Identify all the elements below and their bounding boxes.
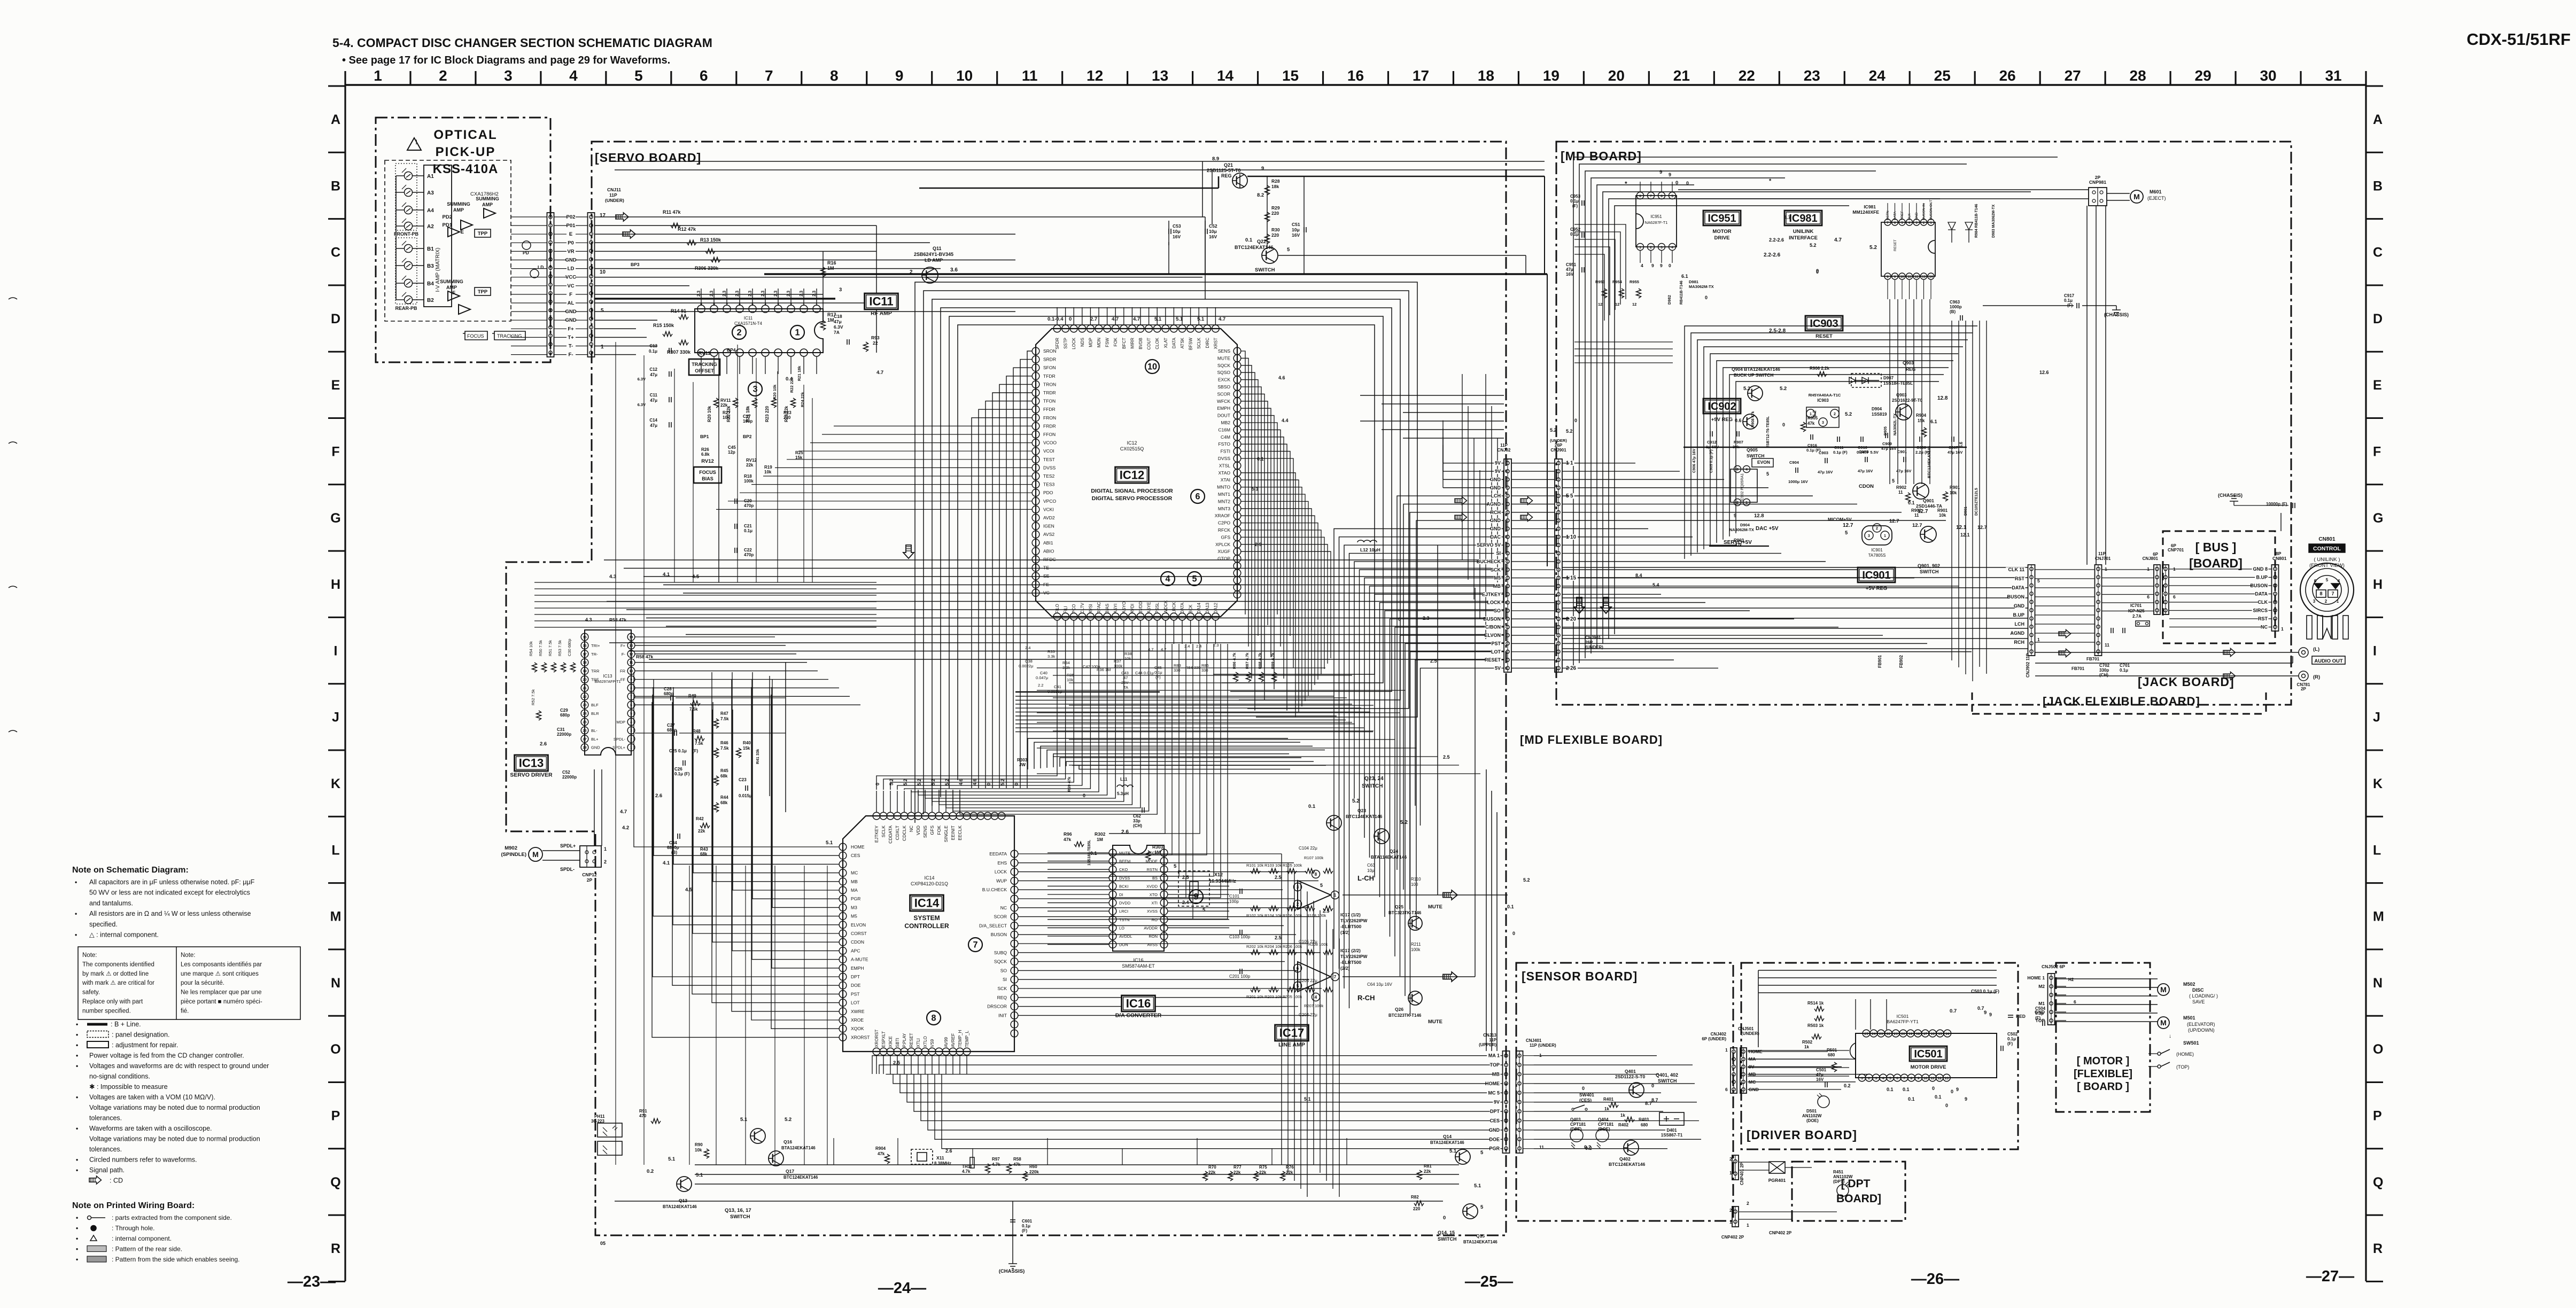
svg-text:•: •: [75, 931, 77, 939]
svg-text:4.3: 4.3: [609, 574, 616, 580]
svg-text:FFON: FFON: [1043, 432, 1056, 437]
svg-text:10: 10: [1923, 1077, 1928, 1080]
svg-text:JW: JW: [1019, 762, 1026, 767]
svg-text:[MD FLEXIBLE BOARD]: [MD FLEXIBLE BOARD]: [1520, 733, 1663, 746]
svg-text:D501: D501: [1806, 1109, 1817, 1114]
svg-text:FILO: FILO: [1055, 604, 1060, 613]
svg-text:0.1: 0.1: [1887, 1087, 1894, 1092]
svg-text:1: 1: [2105, 566, 2107, 572]
svg-text:5: 5: [1570, 493, 1573, 499]
svg-text:[ BOARD ]: [ BOARD ]: [2077, 1081, 2129, 1093]
svg-text:(L): (L): [2313, 647, 2319, 652]
svg-text:13: 13: [1945, 1077, 1949, 1080]
svg-text:7.5k: 7.5k: [695, 741, 703, 746]
svg-text:9: 9: [1965, 1096, 1967, 1102]
svg-text:220k: 220k: [1029, 1170, 1039, 1174]
svg-text:10μ: 10μ: [1173, 229, 1181, 234]
svg-text:C23: C23: [739, 777, 747, 782]
svg-text:6.3V: 6.3V: [834, 324, 843, 330]
svg-text:TPP: TPP: [478, 231, 488, 237]
svg-text:L12 10μH: L12 10μH: [1360, 547, 1380, 552]
svg-text:RO: RO: [1152, 917, 1158, 922]
svg-text:R104 10k: R104 10k: [1264, 913, 1282, 918]
svg-text:2.7: 2.7: [1090, 316, 1097, 322]
svg-text:M5: M5: [1494, 575, 1501, 581]
svg-text:FB902: FB902: [1899, 655, 1904, 668]
svg-text:1000p: 1000p: [1950, 305, 1962, 309]
svg-text:A3: A3: [427, 190, 434, 196]
svg-text:1: 1: [1729, 1219, 1732, 1225]
svg-text:•: •: [76, 1052, 78, 1060]
svg-text:Circled numbers refer to wavef: Circled numbers refer to waveforms.: [89, 1156, 197, 1164]
svg-text:12.7: 12.7: [1977, 525, 1987, 530]
svg-text:5-4. COMPACT DISC CHANGER SEC: 5-4. COMPACT DISC CHANGER SECTION SCHEMA…: [332, 36, 712, 50]
svg-text:SUMMING: SUMMING: [440, 279, 463, 284]
svg-text:D983 MA3062M-TX: D983 MA3062M-TX: [1992, 204, 1996, 238]
svg-text:BVDD: BVDD: [1138, 602, 1143, 613]
svg-text:VDD: VDD: [915, 826, 921, 835]
svg-text:NC: NC: [909, 826, 914, 832]
svg-text:47μ: 47μ: [834, 319, 842, 324]
svg-text:47μ 16V: 47μ 16V: [1858, 469, 1873, 473]
svg-text:[JACK BOARD]: [JACK BOARD]: [2138, 675, 2234, 689]
svg-text:R902: R902: [1896, 485, 1907, 490]
svg-text:9: 9: [1651, 263, 1654, 268]
svg-text:D: D: [331, 312, 340, 326]
svg-text:220: 220: [783, 415, 791, 420]
svg-text:TEMP_H: TEMP_H: [958, 1030, 963, 1047]
svg-text:DOE: DOE: [851, 983, 861, 988]
svg-text:C: C: [331, 245, 340, 260]
svg-text:RON: RON: [1149, 934, 1158, 939]
svg-text:5.2: 5.2: [944, 778, 950, 785]
svg-text:1M: 1M: [827, 266, 834, 271]
svg-text:25: 25: [1864, 1032, 1868, 1036]
svg-text:(UNDER): (UNDER): [1550, 438, 1567, 443]
svg-text:*: *: [1625, 180, 1627, 188]
svg-text:REAR-PB: REAR-PB: [395, 306, 417, 311]
svg-text:GND: GND: [1915, 212, 1919, 220]
svg-text:23: 23: [583, 704, 587, 707]
svg-text:IC13: IC13: [603, 674, 612, 679]
svg-text:0.1μ: 0.1μ: [649, 349, 657, 354]
svg-text:C204 22μ: C204 22μ: [1299, 1013, 1317, 1017]
svg-text:C20: C20: [744, 499, 752, 503]
svg-text:•: •: [75, 910, 77, 917]
svg-text:11: 11: [630, 661, 633, 665]
svg-text:OPTICAL: OPTICAL: [433, 128, 497, 142]
svg-text:CONTROL: CONTROL: [2313, 546, 2341, 552]
svg-text:C/BON: C/BON: [1485, 625, 1501, 630]
svg-text:2: 2: [1747, 1201, 1749, 1206]
svg-text:LO: LO: [1119, 925, 1124, 930]
svg-text:22k: 22k: [698, 829, 705, 834]
svg-text:9: 9: [630, 678, 632, 682]
svg-text:G: G: [330, 511, 340, 526]
svg-text:H: H: [2373, 577, 2383, 592]
svg-text:AVDDR: AVDDR: [1144, 925, 1158, 930]
svg-text:0: 0: [1705, 295, 1708, 300]
svg-text:IC11: IC11: [869, 295, 893, 308]
svg-text:INTERFACE: INTERFACE: [1789, 235, 1818, 241]
svg-text:MOTOR DRIVE: MOTOR DRIVE: [1911, 1064, 1946, 1070]
svg-text:5: 5: [1202, 907, 1206, 913]
svg-text:0: 0: [1951, 1089, 1953, 1094]
svg-text:R502: R502: [1802, 1040, 1813, 1045]
svg-text:0: 0: [1945, 1103, 1948, 1108]
svg-text:SWITCH: SWITCH: [1747, 453, 1765, 458]
svg-text:10μ: 10μ: [1292, 227, 1300, 232]
svg-text:2: 2: [439, 67, 447, 84]
svg-text:2.5: 2.5: [1323, 908, 1330, 914]
svg-text:C12: C12: [649, 367, 657, 372]
svg-text:C906 47μ 16V: C906 47μ 16V: [1693, 449, 1696, 473]
svg-text:5.1: 5.1: [1304, 1096, 1311, 1102]
svg-text:9: 9: [1918, 1077, 1920, 1080]
svg-text:2SD1446-TA: 2SD1446-TA: [1916, 503, 1942, 509]
svg-text:•: •: [76, 1156, 78, 1164]
svg-text:RFDC: RFDC: [1043, 557, 1056, 562]
svg-text:5.2: 5.2: [1400, 820, 1408, 826]
svg-text:9V: 9V: [1495, 461, 1501, 466]
svg-text:MNT2: MNT2: [1218, 499, 1230, 504]
svg-text:28: 28: [2130, 67, 2146, 84]
svg-text:E: E: [569, 231, 572, 237]
svg-text:PICK-UP: PICK-UP: [436, 145, 496, 159]
svg-text:R451: R451: [1833, 1170, 1844, 1174]
svg-text:2.5: 2.5: [1182, 875, 1189, 880]
svg-text:XROE: XROE: [851, 1017, 864, 1023]
svg-text:BTA124EKAT146: BTA124EKAT146: [781, 1146, 816, 1150]
svg-text:13: 13: [1152, 67, 1168, 84]
svg-text:C64 10μ 16V: C64 10μ 16V: [1367, 982, 1393, 987]
svg-text:10k: 10k: [723, 415, 730, 420]
svg-text:11: 11: [1539, 1144, 1544, 1150]
svg-text:C205 22μ: C205 22μ: [1299, 978, 1317, 983]
svg-text:9: 9: [1193, 892, 1198, 901]
svg-text:BUSON OUT: BUSON OUT: [1929, 199, 1933, 220]
svg-text:R203 10k: R203 10k: [1264, 994, 1282, 999]
svg-text:E: E: [461, 229, 464, 235]
svg-text:MNTO: MNTO: [1217, 485, 1230, 490]
svg-text:R23: R23: [783, 410, 792, 415]
svg-text:XRORST: XRORST: [874, 1030, 879, 1047]
svg-text:R54 10k: R54 10k: [529, 641, 533, 656]
svg-text:2: 2: [630, 737, 632, 741]
svg-text:ASYE: ASYE: [1147, 602, 1152, 613]
svg-text:6: 6: [2147, 594, 2150, 599]
svg-text:ELVON: ELVON: [851, 922, 866, 928]
svg-text:TES3: TES3: [1043, 482, 1055, 487]
svg-text:C: C: [2373, 245, 2383, 260]
svg-text:BUCHECK: BUCHECK: [1477, 559, 1501, 564]
svg-text:2.6: 2.6: [1121, 829, 1129, 835]
svg-text:6P: 6P: [2171, 543, 2176, 548]
svg-text:IC981: IC981: [1864, 204, 1876, 209]
svg-text:• See page 17 for IC Block Dia: • See page 17 for IC Block Diagrams and …: [342, 54, 670, 66]
svg-text:1: 1: [1810, 412, 1812, 416]
svg-text:IC902: IC902: [1708, 401, 1736, 412]
svg-text:EECLK: EECLK: [957, 826, 963, 840]
svg-text:IC12: IC12: [1127, 440, 1137, 446]
svg-text:EJTKEY: EJTKEY: [1482, 591, 1501, 597]
svg-text:9: 9: [1669, 172, 1671, 177]
svg-text:2: 2: [1729, 1156, 1732, 1162]
svg-text:(CH): (CH): [1133, 823, 1142, 828]
svg-text:1: 1: [1570, 461, 1573, 466]
svg-text:10k: 10k: [1124, 656, 1131, 661]
svg-text:12: 12: [1087, 67, 1103, 84]
svg-text:D/A CONVERTER: D/A CONVERTER: [1115, 1013, 1162, 1019]
svg-text:GND: GND: [2035, 1009, 2045, 1015]
svg-text:CNJ401: CNJ401: [1526, 1038, 1542, 1043]
svg-text:R21 18k: R21 18k: [797, 365, 802, 381]
svg-text:11P: 11P: [1489, 1038, 1496, 1042]
svg-text:DVDD: DVDD: [1119, 901, 1131, 906]
svg-text:M5: M5: [851, 914, 857, 919]
svg-text:A1: A1: [427, 174, 434, 180]
svg-text:BFCT: BFCT: [1122, 338, 1127, 349]
svg-text:OFFSET: OFFSET: [695, 368, 714, 373]
svg-text:6: 6: [2173, 594, 2176, 599]
svg-text:DI: DI: [1119, 892, 1123, 897]
svg-text:FOCUS: FOCUS: [467, 333, 484, 339]
svg-text:2: 2: [1834, 412, 1836, 416]
svg-text:2.5: 2.5: [1275, 935, 1282, 940]
svg-text:12.7: 12.7: [1889, 518, 1899, 524]
svg-text:0.1: 0.1: [1903, 1087, 1910, 1092]
svg-text:9V: 9V: [1494, 1100, 1500, 1105]
svg-text:6: 6: [1297, 966, 1299, 971]
svg-text:N: N: [2373, 976, 2383, 991]
svg-text:1SS184-TE85L: 1SS184-TE85L: [1088, 839, 1091, 866]
svg-text:26: 26: [1570, 665, 1577, 671]
svg-text:8: 8: [830, 67, 839, 84]
svg-text:TR-: TR-: [591, 652, 598, 657]
svg-text:R44: R44: [720, 795, 728, 800]
svg-text:XTSL: XTSL: [1219, 463, 1231, 468]
svg-text:47μ: 47μ: [650, 398, 657, 403]
svg-text:✱ : Impossible to measure: ✱ : Impossible to measure: [89, 1083, 168, 1091]
svg-text:6: 6: [630, 704, 632, 707]
svg-text:5.1: 5.1: [668, 1156, 676, 1162]
svg-text:I: I: [334, 643, 338, 658]
svg-text:B.UP: B.UP: [2013, 612, 2024, 618]
svg-text:220: 220: [1413, 1206, 1421, 1211]
svg-text:R107 100k: R107 100k: [1304, 855, 1324, 860]
svg-text:100: 100: [1411, 882, 1418, 887]
svg-text:5: 5: [630, 712, 632, 716]
svg-text:B4: B4: [427, 281, 434, 287]
svg-text:by mark ⚠ or dotted line: by mark ⚠ or dotted line: [82, 971, 149, 977]
svg-text:GND: GND: [1490, 518, 1501, 523]
svg-text:4.7: 4.7: [1219, 316, 1225, 322]
svg-text:number specified.: number specified.: [82, 1008, 131, 1014]
svg-text:12: 12: [1598, 302, 1602, 307]
svg-text:FOK: FOK: [936, 826, 942, 835]
svg-text:C52: C52: [562, 770, 570, 775]
svg-text:R90: R90: [695, 1142, 703, 1147]
svg-text:5.4: 5.4: [1652, 582, 1659, 588]
svg-text:Note:: Note:: [82, 952, 97, 959]
svg-text:100p: 100p: [743, 419, 752, 424]
svg-text:BTA114EKAT146: BTA114EKAT146: [1371, 854, 1407, 860]
svg-text:CNP402 2P: CNP402 2P: [1721, 1235, 1744, 1240]
svg-text:EMPH: EMPH: [851, 966, 864, 971]
svg-text:CDON: CDON: [851, 939, 864, 945]
svg-text:VCKI: VCKI: [1043, 507, 1054, 512]
svg-text:0.1μ: 0.1μ: [1154, 670, 1162, 675]
svg-text:[MD BOARD]: [MD BOARD]: [1561, 149, 1642, 163]
svg-text:CX02515Q: CX02515Q: [1120, 446, 1144, 451]
svg-text:16: 16: [1931, 1032, 1935, 1036]
svg-text:Q16: Q16: [783, 1139, 792, 1144]
svg-text:RESET: RESET: [909, 1033, 914, 1047]
svg-text:D982: D982: [1667, 295, 1672, 305]
svg-text:2: 2: [1729, 1208, 1732, 1213]
svg-text:5.1: 5.1: [1154, 316, 1162, 322]
svg-text:(UNDER): (UNDER): [605, 198, 624, 203]
svg-text:VCOO: VCOO: [1043, 440, 1057, 446]
svg-text:[FLEXIBLE]: [FLEXIBLE]: [2074, 1068, 2132, 1080]
svg-text:R27: R27: [723, 410, 731, 415]
svg-text:RESET: RESET: [1815, 333, 1833, 339]
svg-text:2.6: 2.6: [945, 1148, 952, 1154]
svg-text:RST: RST: [2258, 616, 2268, 621]
svg-text:SERVO DRIVER: SERVO DRIVER: [510, 772, 553, 778]
svg-text:NA6287F-T1: NA6287F-T1: [1645, 220, 1668, 225]
svg-text:BUCK UP SWITCH: BUCK UP SWITCH: [1734, 372, 1773, 378]
svg-text:22000p: 22000p: [557, 732, 571, 737]
svg-text:2.4: 2.4: [1196, 644, 1201, 649]
svg-text:EHS: EHS: [998, 860, 1007, 866]
svg-text:0.1μ: 0.1μ: [1570, 232, 1579, 237]
svg-text:3: 3: [752, 384, 757, 394]
svg-text:12.7: 12.7: [1918, 509, 1928, 515]
svg-text:SCOR: SCOR: [994, 914, 1007, 920]
svg-text:R42: R42: [696, 816, 704, 821]
svg-text:: Pattern of the rear side.: : Pattern of the rear side.: [112, 1245, 182, 1253]
svg-text:0.1μ: 0.1μ: [1570, 199, 1579, 204]
svg-text:2: 2: [1650, 246, 1652, 250]
svg-text:4: 4: [630, 721, 632, 725]
svg-text:M2: M2: [2038, 984, 2045, 989]
svg-text:Note on Schematic Diagram:: Note on Schematic Diagram:: [72, 866, 189, 875]
svg-text:C28: C28: [664, 687, 672, 691]
svg-text:SWITCH: SWITCH: [1255, 267, 1275, 273]
svg-text:0.1μ: 0.1μ: [2064, 298, 2073, 303]
svg-text:0: 0: [1686, 181, 1689, 186]
svg-text:LOCK: LOCK: [1487, 600, 1501, 605]
svg-text:10: 10: [1570, 534, 1577, 540]
svg-text:CLK 11: CLK 11: [2008, 567, 2024, 572]
svg-text:R30: R30: [1271, 227, 1280, 232]
svg-text:TRR: TRR: [591, 669, 600, 674]
svg-text:MNT1: MNT1: [1218, 492, 1230, 497]
svg-text:2.3: 2.3: [722, 290, 727, 297]
svg-text:5: 5: [601, 308, 604, 314]
svg-text:•: •: [76, 1125, 78, 1132]
svg-text:R69 47k: R69 47k: [1067, 776, 1072, 792]
svg-text:RV11: RV11: [698, 351, 711, 356]
svg-text:R18: R18: [744, 474, 752, 479]
svg-text:T+: T+: [568, 334, 574, 340]
svg-text:2.5: 2.5: [1443, 754, 1450, 760]
svg-text:-ELRT500: -ELRT500: [1340, 924, 1361, 929]
svg-text:4: 4: [569, 67, 578, 84]
svg-text:P0: P0: [568, 240, 574, 246]
svg-text:R503 1k: R503 1k: [1807, 1023, 1824, 1028]
svg-text:BL+: BL+: [591, 737, 599, 742]
svg-text:XTI: XTI: [1151, 901, 1158, 906]
svg-text:VC: VC: [567, 283, 574, 289]
svg-text:: adjustment for repair.: : adjustment for repair.: [112, 1041, 178, 1049]
svg-text:16.9344MHz: 16.9344MHz: [1209, 878, 1237, 884]
svg-text:—23—: —23—: [288, 1273, 336, 1290]
svg-text:24: 24: [1872, 1032, 1876, 1036]
svg-text:BLR: BLR: [591, 711, 599, 716]
svg-text:2: 2: [1297, 902, 1299, 907]
svg-text:C43: C43: [1121, 671, 1129, 675]
svg-text:R25: R25: [795, 450, 803, 455]
svg-text:4.6: 4.6: [972, 778, 977, 785]
svg-text:O: O: [330, 1042, 340, 1057]
svg-text:(R): (R): [2313, 674, 2320, 680]
svg-text:P: P: [331, 1109, 340, 1124]
svg-text:CNJ501: CNJ501: [1738, 1026, 1754, 1031]
svg-text:ATSK: ATSK: [1180, 337, 1185, 348]
svg-text:2: 2: [604, 859, 607, 865]
svg-text:22k: 22k: [1424, 1169, 1431, 1174]
svg-text:Q15: Q15: [1476, 1233, 1485, 1239]
svg-text:6: 6: [700, 67, 708, 84]
svg-text:SWITCH: SWITCH: [730, 1214, 750, 1220]
svg-text:(DOE): (DOE): [1806, 1118, 1819, 1123]
svg-text:NA3062M-TX: NA3062M-TX: [1729, 527, 1754, 532]
svg-text:R206 100k: R206 100k: [1283, 944, 1302, 949]
svg-text:16: 16: [583, 644, 587, 648]
svg-text:1: 1: [1747, 1223, 1749, 1228]
svg-text:[ DPT: [ DPT: [1841, 1178, 1871, 1190]
svg-text:GND 8: GND 8: [2253, 566, 2268, 572]
svg-text:14: 14: [629, 636, 633, 640]
svg-text:1k: 1k: [1804, 1045, 1809, 1049]
svg-text:TA: TA: [1123, 685, 1128, 690]
svg-text:5.1: 5.1: [696, 1172, 703, 1178]
svg-text:CNP402 2P: CNP402 2P: [1769, 1231, 1792, 1235]
svg-text:2: 2: [1736, 501, 1739, 505]
svg-text:TEMP_L: TEMP_L: [965, 1030, 969, 1047]
svg-text:RV11: RV11: [720, 398, 731, 403]
svg-text:4.6: 4.6: [958, 778, 964, 785]
svg-text:11: 11: [1931, 1077, 1935, 1080]
svg-text:7: 7: [973, 940, 977, 949]
svg-text:CNJ901: CNJ901: [1585, 635, 1601, 640]
svg-text:M601: M601: [2150, 189, 2162, 194]
svg-text:R58 47k: R58 47k: [636, 654, 653, 659]
svg-text:1k: 1k: [1620, 1113, 1625, 1118]
svg-text:3: 3: [1875, 1077, 1877, 1080]
svg-text:NC: NC: [2261, 625, 2268, 630]
svg-text:CN801: CN801: [2318, 536, 2336, 542]
svg-text:NDS: NDS: [1080, 338, 1085, 347]
svg-text:4: 4: [1745, 468, 1748, 472]
svg-text:•: •: [75, 878, 77, 886]
svg-text:T-: T-: [569, 344, 573, 349]
svg-text:B: B: [331, 178, 340, 193]
svg-text:4: 4: [1671, 246, 1673, 250]
svg-text:5.2: 5.2: [903, 778, 908, 785]
